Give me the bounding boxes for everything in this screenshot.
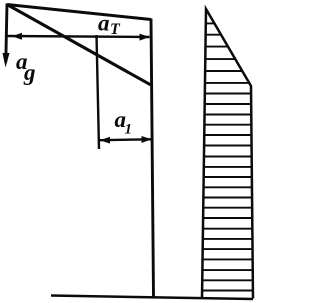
svg-text:g: g [23, 60, 36, 85]
svg-text:T: T [110, 21, 121, 38]
svg-text:a: a [98, 11, 110, 36]
svg-text:1: 1 [125, 122, 133, 138]
